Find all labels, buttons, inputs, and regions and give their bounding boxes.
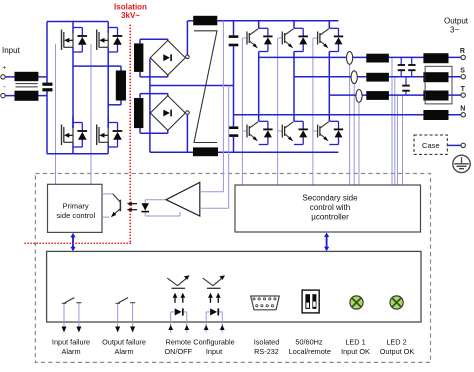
- svg-text:LED 1: LED 1: [345, 338, 365, 347]
- svg-text:Alarm: Alarm: [114, 347, 133, 356]
- svg-text:Output: Output: [444, 16, 469, 25]
- svg-text:side control: side control: [56, 211, 95, 220]
- svg-text:3kV~: 3kV~: [121, 11, 140, 20]
- svg-text:Secondary side: Secondary side: [302, 194, 358, 203]
- svg-text:ON/OFF: ON/OFF: [165, 347, 193, 356]
- svg-text:RS-232: RS-232: [254, 347, 279, 356]
- svg-text:Configurable: Configurable: [193, 338, 234, 347]
- svg-text:Input: Input: [206, 347, 222, 356]
- svg-text:N: N: [460, 106, 465, 113]
- svg-text:control with: control with: [310, 203, 350, 212]
- svg-text:T: T: [461, 86, 466, 93]
- svg-text:Alarm: Alarm: [61, 347, 80, 356]
- svg-text:Local/remote: Local/remote: [289, 347, 331, 356]
- svg-text:S: S: [460, 67, 465, 74]
- svg-text:µcontroller: µcontroller: [311, 213, 349, 222]
- svg-text:Primary: Primary: [63, 202, 89, 211]
- svg-text:Input OK: Input OK: [341, 347, 370, 356]
- svg-text:Output OK: Output OK: [380, 347, 415, 356]
- svg-text:+: +: [3, 65, 7, 72]
- svg-text:Case: Case: [422, 141, 440, 150]
- svg-text:Input: Input: [2, 46, 21, 55]
- svg-text:Input failure: Input failure: [52, 338, 90, 347]
- svg-text:3~: 3~: [450, 26, 459, 35]
- svg-text:Isolated: Isolated: [254, 338, 280, 347]
- svg-text:R: R: [460, 48, 465, 55]
- svg-text:Output failure: Output failure: [102, 338, 146, 347]
- svg-text:LED 2: LED 2: [386, 338, 406, 347]
- svg-text:50/60Hz: 50/60Hz: [295, 338, 323, 347]
- svg-text:Remote: Remote: [166, 338, 192, 347]
